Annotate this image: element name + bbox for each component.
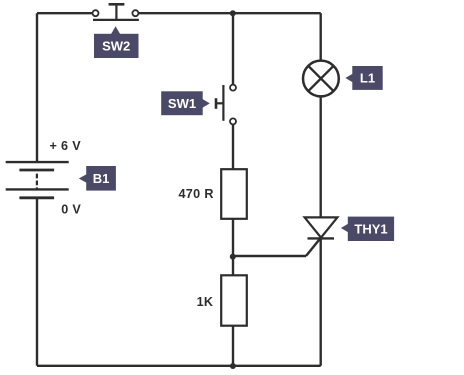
wire: gate diagonal segment bbox=[306, 238, 321, 257]
node: top rail / middle branch junction bbox=[230, 10, 236, 16]
svg-text:0 V: 0 V bbox=[61, 202, 81, 216]
label B1 bbox=[79, 166, 116, 191]
wire: right vertical (lamp to thyristor) bbox=[320, 97, 322, 218]
wire: top rail left segment bbox=[37, 12, 93, 14]
svg-text:1K: 1K bbox=[197, 295, 214, 309]
svg-text:SW1: SW1 bbox=[168, 96, 196, 111]
wire: bottom rail bbox=[37, 365, 321, 367]
thyristor THY1 bbox=[305, 217, 338, 238]
switch SW1 (push-to-make) bbox=[216, 85, 236, 125]
wire: middle vertical (SW1 to 470R) bbox=[232, 125, 234, 169]
wire: left vertical (top rail to battery +) bbox=[36, 13, 38, 162]
wire: gate horizontal segment bbox=[233, 255, 306, 257]
wire: middle vertical (top rail to SW1) bbox=[232, 13, 234, 84]
label SW1 bbox=[161, 91, 210, 115]
svg-text:+ 6 V: + 6 V bbox=[50, 139, 82, 153]
wire: right vertical (top rail to lamp) bbox=[320, 13, 322, 60]
svg-text:THY1: THY1 bbox=[354, 221, 387, 236]
svg-text:SW2: SW2 bbox=[102, 39, 130, 54]
resistor R (1K) bbox=[221, 275, 247, 325]
battery B1 bbox=[6, 162, 69, 198]
svg-text:470 R: 470 R bbox=[178, 187, 213, 201]
wire: middle vertical (1K to bottom rail) bbox=[232, 326, 234, 366]
label L1 bbox=[345, 66, 382, 90]
label SW2 bbox=[94, 26, 139, 58]
switch SW2 (push-to-break) bbox=[93, 4, 139, 20]
wire: top rail right segment bbox=[139, 12, 321, 14]
resistor R (470R) bbox=[221, 169, 247, 219]
wire: right vertical (thyristor to bottom rail) bbox=[320, 238, 322, 365]
node: bottom rail / middle branch junction bbox=[230, 363, 236, 369]
svg-text:L1: L1 bbox=[360, 71, 375, 86]
wire: middle vertical (470R to 1K) bbox=[232, 219, 234, 275]
lamp L1 bbox=[303, 61, 339, 97]
node: gate / divider junction bbox=[230, 254, 236, 260]
svg-text:B1: B1 bbox=[93, 171, 110, 186]
wire: left vertical (battery - to bottom rail) bbox=[36, 198, 38, 366]
label THY1 bbox=[341, 217, 394, 241]
